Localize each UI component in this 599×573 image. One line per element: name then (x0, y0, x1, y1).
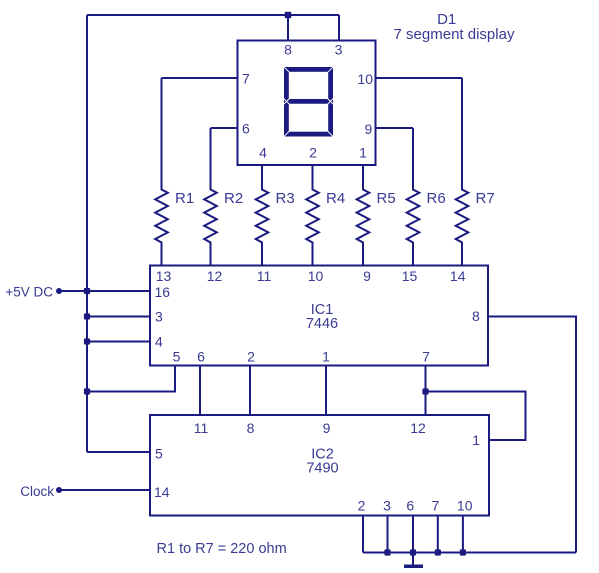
wire IC1 pin 1 to IC2 pin 9 (325, 366, 327, 416)
svg-text:9: 9 (365, 121, 373, 137)
svg-text:6: 6 (197, 349, 205, 365)
node junction IC1 pin7 branch (422, 388, 428, 394)
svg-text:3: 3 (155, 309, 163, 325)
svg-text:14: 14 (154, 484, 170, 500)
svg-text:8: 8 (284, 42, 292, 58)
svg-text:10: 10 (457, 498, 473, 514)
node junction top rail / display pin 8 (285, 12, 292, 19)
svg-text:7490: 7490 (306, 461, 338, 477)
node junction rail pin4 (84, 338, 90, 344)
seven segment digit 8 (283, 66, 334, 137)
svg-text:R3: R3 (276, 190, 295, 207)
resistor R4 (306, 165, 319, 265)
node junction rail pin16 (84, 288, 90, 294)
wire IC2 pin 6 drop (412, 516, 414, 553)
wire Clock to IC2 pin 14 (59, 489, 150, 491)
svg-text:5: 5 (155, 446, 163, 462)
wire IC2 pin 3 drop (387, 516, 389, 553)
wire IC2 pin 10 drop (462, 516, 464, 553)
node ground bus junction 6 (410, 549, 416, 555)
svg-text:16: 16 (155, 284, 171, 300)
svg-text:7446: 7446 (306, 316, 338, 332)
wire display pin 7 to R1 (162, 77, 238, 79)
svg-text:2: 2 (309, 145, 317, 161)
svg-text:4: 4 (155, 334, 163, 350)
node ground bus junction 3 (384, 549, 390, 555)
svg-text:5: 5 (173, 349, 181, 365)
svg-text:12: 12 (207, 268, 223, 284)
svg-text:3: 3 (383, 498, 391, 514)
svg-text:R5: R5 (377, 190, 396, 207)
svg-text:3: 3 (335, 42, 343, 58)
IC2 7490 box (150, 415, 489, 516)
svg-text:R1: R1 (175, 190, 194, 207)
resistor R7 (456, 78, 469, 265)
svg-text:R2: R2 (224, 190, 243, 207)
svg-text:13: 13 (156, 268, 172, 284)
svg-text:6: 6 (406, 498, 414, 514)
node +5V terminal (56, 288, 62, 294)
node ground bus junction 7 (435, 549, 441, 555)
node Clock terminal (56, 487, 62, 493)
wire IC1 pin 8 to ground bus (488, 317, 576, 553)
wire display pin 6 to R2 (211, 127, 238, 129)
wire IC1 pin 5 to rail (87, 366, 175, 392)
ground bar (404, 565, 423, 569)
svg-text:8: 8 (472, 308, 480, 324)
svg-text:2: 2 (358, 498, 366, 514)
wire +5V DC to IC1 pin 16 (59, 290, 150, 292)
resistor R3 (256, 165, 269, 265)
svg-text:R4: R4 (326, 190, 345, 207)
svg-text:4: 4 (259, 145, 267, 161)
svg-text:11: 11 (257, 268, 272, 284)
wire ground bus horizontal (363, 552, 576, 554)
wire junction branch to IC2 pin 1 (426, 392, 526, 441)
svg-text:1: 1 (322, 349, 330, 365)
resistor R2 (204, 128, 217, 265)
resistor R5 (357, 165, 370, 265)
svg-text:10: 10 (308, 268, 324, 284)
wire rail to IC1 pin 3 (87, 316, 150, 318)
wire left vertical supply rail (86, 15, 88, 452)
svg-text:8: 8 (247, 420, 255, 436)
node junction rail pin3 (84, 313, 90, 319)
svg-text:11: 11 (194, 420, 209, 436)
svg-text:1: 1 (472, 432, 480, 448)
wire IC1 pin 6 to IC2 pin 11 (199, 366, 201, 416)
resistor R6 (407, 128, 420, 265)
wire IC1 pin 2 to IC2 pin 8 (249, 366, 251, 416)
wire rail to IC1 pin 4 (87, 341, 150, 343)
wire IC2 pin 2 drop (362, 516, 364, 553)
resistor R1 (155, 78, 168, 265)
IC1 7446 box (150, 266, 488, 366)
svg-text:12: 12 (410, 420, 426, 436)
wire top horizontal from left rail to display pin 3 (87, 14, 339, 16)
wire display pin 9 to R6 (376, 127, 414, 129)
ground stem (412, 553, 414, 565)
wire display pin 8 drop (287, 15, 289, 41)
svg-text:15: 15 (402, 268, 418, 284)
svg-text:R6: R6 (427, 190, 446, 207)
svg-text:7 segment display: 7 segment display (394, 26, 515, 43)
7 segment display D1 box (238, 41, 376, 166)
svg-text:Clock: Clock (20, 484, 54, 499)
wire IC1 pin 7 to IC2 pin 12 (425, 366, 427, 416)
wire display pin 10 to R7 (376, 77, 463, 79)
svg-text:2: 2 (247, 349, 255, 365)
svg-text:7: 7 (422, 349, 430, 365)
svg-text:10: 10 (357, 71, 373, 87)
wire rail to IC2 pin 5 (87, 451, 150, 453)
wire IC2 pin 7 drop (437, 516, 439, 553)
svg-text:R7: R7 (476, 190, 495, 207)
svg-text:6: 6 (242, 121, 250, 137)
node ground bus junction 10 (460, 549, 466, 555)
wire display pin 3 drop (338, 15, 340, 41)
svg-text:R1 to R7 = 220 ohm: R1 to R7 = 220 ohm (157, 541, 287, 557)
svg-text:1: 1 (359, 145, 367, 161)
svg-text:14: 14 (450, 268, 466, 284)
svg-text:+5V DC: +5V DC (5, 284, 53, 299)
node junction rail pin5 (84, 388, 90, 394)
svg-text:9: 9 (323, 420, 331, 436)
svg-text:7: 7 (432, 498, 440, 514)
svg-text:7: 7 (242, 71, 250, 87)
svg-text:9: 9 (363, 268, 371, 284)
